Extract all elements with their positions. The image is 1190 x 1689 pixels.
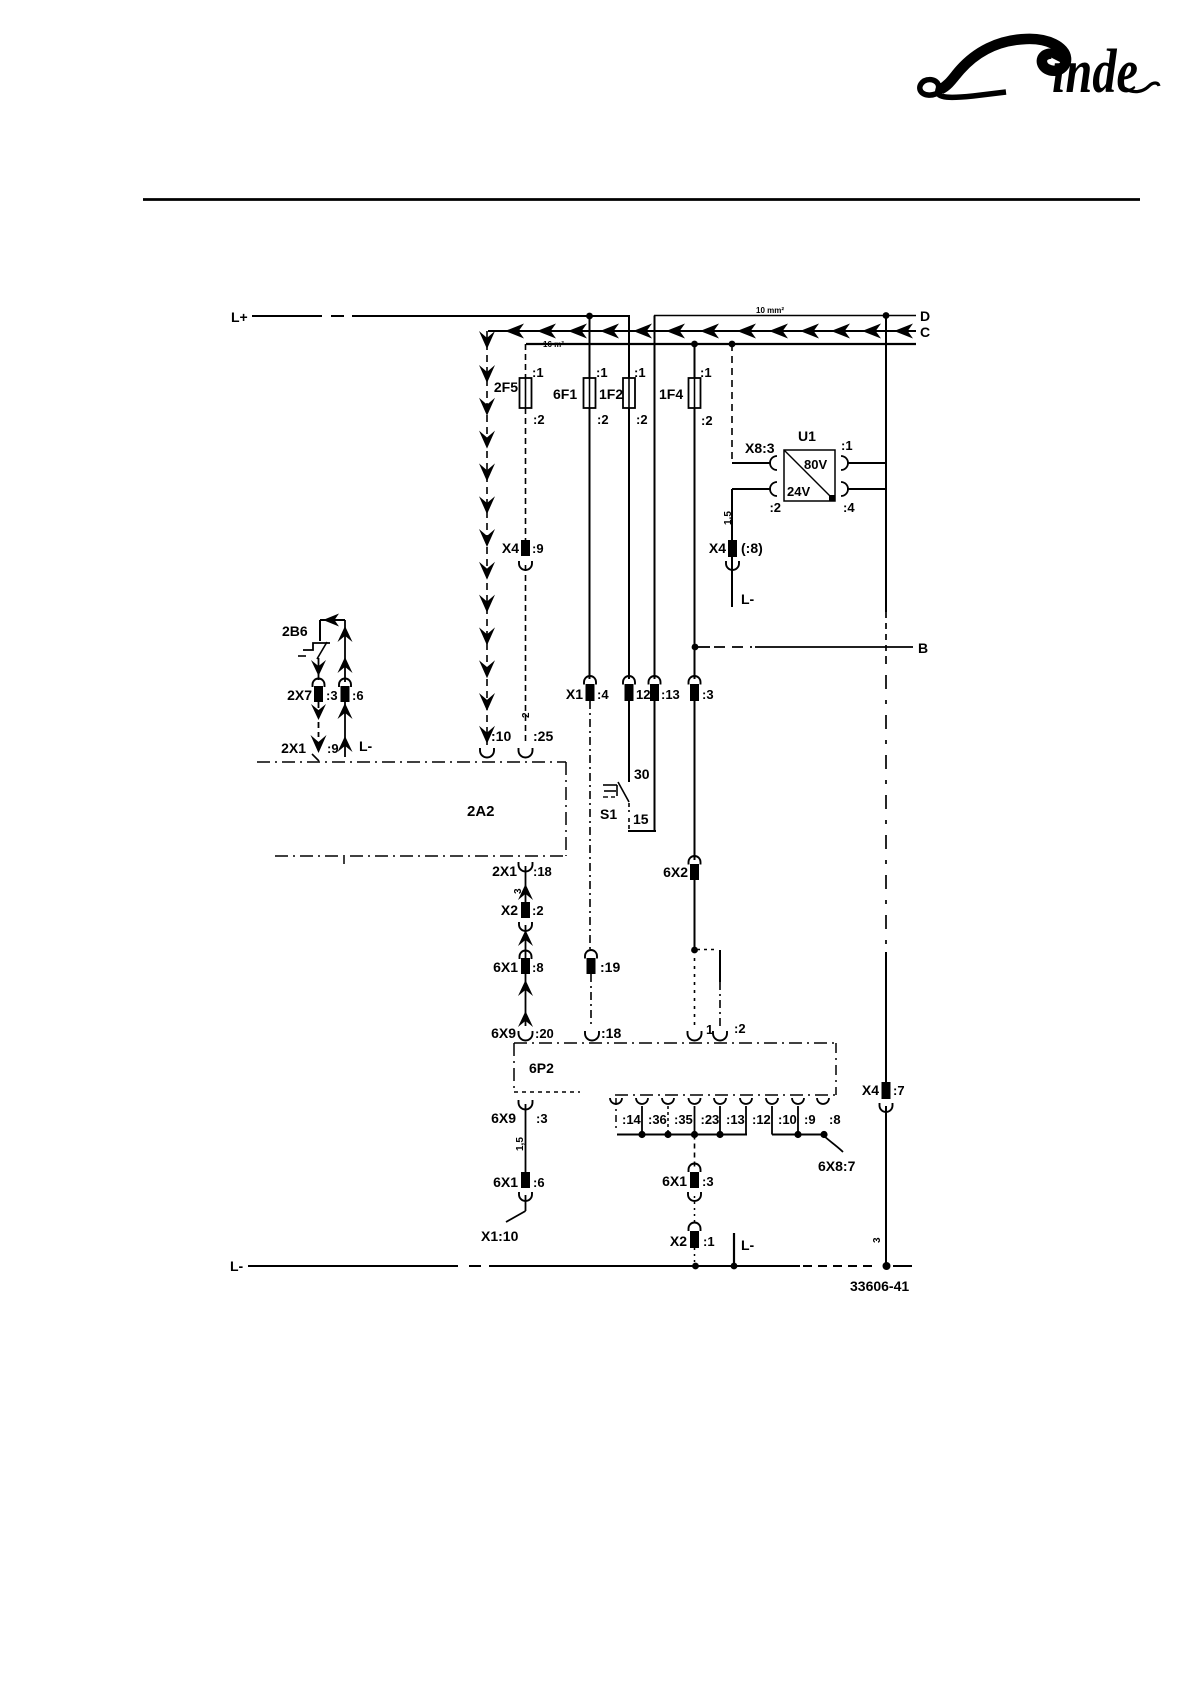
junction 1F4 tap	[691, 341, 698, 348]
svg-text::25: :25	[533, 728, 553, 744]
svg-text:3: 3	[513, 888, 524, 894]
wire battery bus x=886	[885, 316, 887, 1083]
header rule	[143, 198, 1140, 201]
connector 6X1:3	[662, 1164, 713, 1202]
node 6P2 pin :2 cup	[713, 1021, 746, 1041]
svg-text::23: :23	[701, 1112, 720, 1127]
node D rail	[654, 308, 930, 324]
svg-text::1: :1	[700, 365, 712, 380]
connector 2X7:6	[339, 679, 364, 704]
svg-text::8: :8	[532, 960, 544, 975]
junction battery bus on L- rail	[883, 1262, 891, 1270]
svg-text::2: :2	[597, 412, 609, 427]
svg-text::19: :19	[600, 959, 620, 975]
wire X2:2 to 6X1:8 with flow arrow	[518, 925, 533, 958]
6P2 pin row cups	[610, 1098, 841, 1127]
svg-text:X1:10: X1:10	[481, 1228, 519, 1244]
svg-text:L-: L-	[741, 591, 755, 607]
svg-text::10: :10	[491, 728, 511, 744]
svg-text::3: :3	[536, 1111, 548, 1126]
wire D rail corner down (pin :13 feed)	[654, 316, 656, 680]
svg-text::35: :35	[674, 1112, 693, 1127]
svg-text:6X1: 6X1	[493, 1174, 518, 1190]
svg-text::8: :8	[829, 1112, 841, 1127]
svg-text:6P2: 6P2	[529, 1060, 554, 1076]
wire U1 row1 left	[732, 462, 771, 464]
node 6P2 pin 1 cup	[688, 1022, 714, 1041]
wire 1F2 lower lead	[628, 408, 630, 679]
svg-text::20: :20	[535, 1026, 554, 1041]
svg-text::36: :36	[648, 1112, 667, 1127]
wire 6X9:3 down to 6X1:6	[515, 1104, 526, 1174]
wire to 2A2 pin :25	[525, 565, 527, 744]
connector 6X1:6	[493, 1172, 544, 1201]
wire diagonal to 6X8:7	[818, 1136, 856, 1174]
wire 24V return down	[731, 489, 733, 607]
switch S1 (ignition)	[600, 766, 656, 831]
svg-text:15: 15	[633, 811, 649, 827]
junction above 6P2	[691, 947, 698, 954]
svg-text::1: :1	[634, 365, 646, 380]
svg-text::1: :1	[596, 365, 608, 380]
wire U1 row2 left	[732, 488, 771, 490]
svg-text::18: :18	[533, 864, 552, 879]
wire U1 row1 right	[847, 462, 886, 464]
svg-text:80V: 80V	[804, 457, 827, 472]
svg-text::7: :7	[893, 1083, 905, 1098]
svg-text::3: :3	[702, 687, 714, 702]
svg-text:B: B	[918, 640, 928, 656]
wire 6X1:3 to X2:1	[694, 1196, 696, 1222]
junction 6F1 tap on L+ rail	[586, 313, 593, 320]
svg-text::13: :13	[726, 1112, 745, 1127]
node B rail	[692, 640, 929, 656]
svg-text:2A2: 2A2	[467, 803, 495, 820]
wire U1 input from rail (dashed)	[731, 344, 733, 463]
connector X2:1	[670, 1223, 715, 1250]
svg-text:X2: X2	[501, 902, 518, 918]
svg-text:3: 3	[872, 1237, 883, 1243]
svg-text::14: :14	[622, 1112, 642, 1127]
Linde logo	[920, 37, 1159, 106]
svg-text:L-: L-	[741, 1237, 755, 1253]
svg-text:6X2: 6X2	[663, 864, 688, 880]
svg-text:L+: L+	[231, 309, 248, 325]
node 6X9:3 cup below 6P2	[491, 1100, 547, 1126]
svg-text::9: :9	[532, 541, 544, 556]
connector 6X1:8	[493, 951, 543, 976]
connector pin :12	[623, 676, 650, 702]
node 2A2 pin :10 cup	[480, 728, 511, 758]
wire 2X1:18 to X2:2 with flow arrow	[513, 866, 533, 902]
connector X4 (:8)	[709, 540, 763, 570]
svg-text::2: :2	[533, 412, 545, 427]
wire bus segment 2	[772, 1131, 828, 1138]
svg-text:24V: 24V	[787, 484, 810, 499]
wire 6F1 lower lead	[589, 408, 591, 679]
svg-text:2X7: 2X7	[287, 687, 312, 703]
svg-text::4: :4	[843, 500, 855, 515]
svg-text:D: D	[920, 308, 930, 324]
wire 1F4 upper lead	[694, 344, 696, 378]
wire jog to x=720	[697, 949, 715, 951]
svg-text:6X1: 6X1	[493, 959, 518, 975]
svg-text::2: :2	[636, 412, 648, 427]
fuse 2F5	[494, 365, 545, 427]
fuse 6F1	[553, 365, 609, 427]
wire U1 row2 right	[847, 488, 886, 490]
svg-text::2: :2	[769, 500, 781, 515]
node 2A2 pin :25 cup	[519, 728, 554, 758]
instrument 6P2 outline	[514, 1043, 836, 1129]
wire distribution rail (y=344)	[526, 343, 916, 345]
wire down to 6P2 pin :2	[719, 950, 721, 1026]
svg-text::1: :1	[532, 365, 544, 380]
wire arrow chain from C rail down to 2A2 pin :10	[479, 331, 495, 745]
wire X1:4 down to :19	[589, 701, 591, 951]
svg-text:X8:3: X8:3	[745, 440, 775, 456]
wire 1F2 upper lead (corner from L+)	[628, 315, 630, 378]
connector 6X2	[663, 856, 700, 880]
wire 6X2 down to junction	[694, 880, 696, 950]
svg-text::1: :1	[841, 438, 853, 453]
svg-text:6F1: 6F1	[553, 386, 577, 402]
svg-text:6X9: 6X9	[491, 1110, 516, 1126]
svg-text:6X8:7: 6X8:7	[818, 1158, 856, 1174]
svg-text:1,5: 1,5	[515, 1137, 526, 1151]
svg-text:10 mm²: 10 mm²	[756, 306, 784, 315]
op-amp U1 (voltage converter 80V/24V)	[745, 428, 855, 515]
svg-text:U1: U1	[798, 428, 816, 444]
svg-text::10: :10	[778, 1112, 797, 1127]
wire 2X7:3 down to 2X1:9	[311, 702, 326, 737]
control unit 2A2	[257, 762, 566, 864]
wire bus segment 1	[617, 1131, 747, 1138]
wire L- rail	[248, 1265, 912, 1267]
connector pin :13	[649, 676, 680, 702]
svg-text::2: :2	[734, 1021, 746, 1036]
fuse 1F4	[659, 365, 713, 428]
connector X4:9	[502, 540, 544, 570]
svg-text:2F5: 2F5	[494, 379, 518, 395]
svg-text:2B6: 2B6	[282, 623, 308, 639]
connector :19	[585, 950, 620, 975]
svg-text:2: 2	[521, 712, 532, 718]
svg-text:33606-41: 33606-41	[850, 1278, 909, 1294]
junction X2:1 on L- rail	[692, 1263, 699, 1270]
wire :19 down to 6P2 :18	[590, 974, 592, 1026]
wire 6X1:8 to 6X9:20 with flow arrows	[518, 974, 533, 1027]
node 6P2 pin :18 cup	[585, 1025, 621, 1041]
wire :13 down to S1 terminal 15	[654, 701, 656, 830]
svg-text:1,5: 1,5	[723, 511, 734, 525]
svg-text:S1: S1	[600, 806, 617, 822]
connector 2X7:3	[287, 679, 337, 704]
connector X2:2	[501, 902, 544, 931]
wire 1F4 lower lead	[694, 408, 696, 679]
wire L+ rail	[252, 315, 630, 317]
svg-text::1: :1	[703, 1234, 715, 1249]
svg-text::18: :18	[601, 1025, 621, 1041]
svg-text:C: C	[920, 324, 930, 340]
node L- stub	[731, 1233, 755, 1269]
svg-text:1F2: 1F2	[599, 386, 623, 402]
svg-text:(:8): (:8)	[741, 540, 763, 556]
svg-text::12: :12	[752, 1112, 771, 1127]
svg-text:6X1: 6X1	[662, 1173, 687, 1189]
svg-text::2: :2	[532, 903, 544, 918]
svg-text:X4: X4	[502, 540, 519, 556]
connector 2X1:9 (arrow into 2A2)	[281, 735, 338, 761]
svg-text:2X1: 2X1	[492, 863, 517, 879]
wire 2F5 lower lead	[525, 408, 527, 541]
node 2X1:18 cup	[492, 862, 552, 879]
svg-text:L-: L-	[230, 1258, 244, 1274]
svg-text::6: :6	[533, 1175, 545, 1190]
wire 2B6 to 2X7:3 with flow arrow	[311, 658, 326, 680]
wire 2X7:6 rising leg	[338, 620, 353, 682]
svg-text:30: 30	[634, 766, 650, 782]
wire bus to 6X1:3	[694, 1135, 696, 1168]
wire X2:1 to L- rail	[694, 1248, 696, 1266]
wire 6F1 upper lead	[589, 316, 591, 378]
wire X4:7 down to L- rail	[885, 1106, 887, 1266]
svg-text::2: :2	[701, 413, 713, 428]
wire 2X7:6 down to L- arrow	[338, 702, 373, 757]
svg-text:X1: X1	[566, 686, 583, 702]
svg-text::3: :3	[326, 688, 338, 703]
svg-text:X4: X4	[862, 1082, 879, 1098]
svg-text::3: :3	[702, 1174, 714, 1189]
junction on D rail at x=886	[883, 312, 890, 319]
wire :3 down to 6X2	[694, 701, 696, 860]
pin row stubs to bus	[642, 1106, 798, 1135]
svg-text::4: :4	[597, 687, 609, 702]
svg-text:inde: inde	[1052, 37, 1138, 106]
svg-text:1F4: 1F4	[659, 386, 683, 402]
wire :12 down to S1 terminal 30	[628, 701, 630, 782]
wire junction to 6P2 pin 1	[694, 950, 696, 1026]
connector pin :3	[689, 676, 714, 702]
svg-text:12: 12	[636, 687, 650, 702]
svg-text:X2: X2	[670, 1233, 687, 1249]
svg-text::9: :9	[327, 741, 339, 756]
component 2B6 (buzzer)	[282, 614, 345, 660]
svg-text::13: :13	[661, 687, 680, 702]
node 6X9:20 cup	[491, 1025, 554, 1041]
wire 6X1:6 tail to X1:10	[481, 1195, 526, 1244]
svg-text::9: :9	[804, 1112, 816, 1127]
connector X4:7	[862, 1082, 905, 1112]
svg-text::6: :6	[352, 688, 364, 703]
svg-text:L-: L-	[359, 738, 373, 754]
fuse 1F2	[599, 365, 648, 427]
junction U1 tap	[729, 341, 736, 348]
connector X1:4	[566, 676, 609, 702]
svg-text:2X1: 2X1	[281, 740, 306, 756]
svg-text:6X9: 6X9	[491, 1025, 516, 1041]
node C rail with arrows	[488, 324, 930, 341]
svg-text:X4: X4	[709, 540, 726, 556]
wire 2F5 upper lead	[525, 344, 527, 378]
